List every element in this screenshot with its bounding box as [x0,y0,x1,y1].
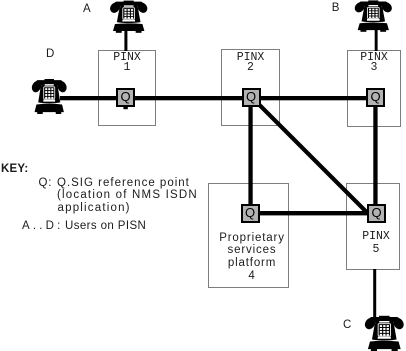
node label D [46,48,54,60]
telephone A [110,1,147,33]
wire: diagonal Q2 to Q5 [256,102,376,222]
label: PINX 1 [98,53,156,75]
label: Proprietary services platform 4 [212,232,293,283]
wire: horizontal Q4 to Q5 [250,211,377,215]
Q square Q1 in PINX 1 [116,88,135,107]
key Q text line 1 [57,177,190,189]
key A..D text [65,220,146,232]
Q square Q5 in PINX 5 [367,204,386,223]
PINX 3 box [347,50,401,127]
telephone B [355,0,392,31]
PINX 1 box [98,50,156,126]
key Q text line 2 [57,189,198,201]
node label C [343,319,351,331]
label: PINX 3 [347,53,401,75]
stub under Q1 [123,105,127,109]
key Q colon [39,177,53,189]
Q square Q3 in PINX 3 [366,88,385,107]
label: PINX 5 [349,230,403,257]
key A..D label [22,220,64,232]
wire: phone B drop line to PINX 3 [375,29,378,51]
Proprietary services platform 4 box [208,183,289,288]
wire: vertical Q2 to Q4 [248,98,252,213]
wire: main horizontal bus D - Q1 - Q2 - Q3 [60,96,376,100]
key Q text line 3 [58,202,131,214]
key heading [1,163,28,175]
PINX 5 box [346,183,400,270]
node label B [332,2,340,14]
wire: phone A drop line to PINX 1 [124,30,127,51]
label: PINX 2 [221,53,280,75]
node label A [83,3,91,15]
Q square Q2 in PINX 2 [242,88,261,107]
wire: vertical Q3 to Q5 [373,98,377,215]
PINX 2 box [221,49,280,126]
telephone C [365,316,404,351]
Q square Q4 in platform 4 [241,204,260,223]
telephone D [32,79,67,114]
wire: PINX 5 drop line to phone C [373,269,376,319]
